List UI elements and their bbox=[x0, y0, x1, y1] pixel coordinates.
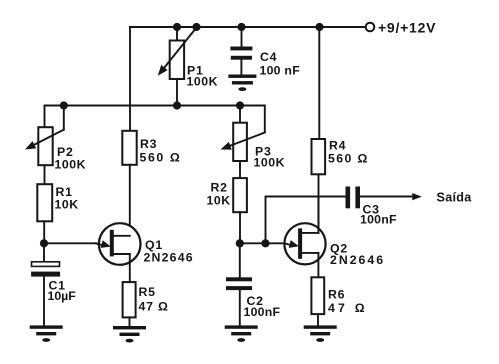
svg-text:10K: 10K bbox=[207, 194, 231, 208]
ground under R5 bbox=[113, 326, 146, 343]
ground under R6 bbox=[304, 325, 337, 342]
svg-text:R6: R6 bbox=[328, 288, 345, 302]
ground under C2 bbox=[225, 325, 258, 342]
wire branch up to C3 bbox=[266, 197, 346, 244]
resistor R4 560 ohm bbox=[312, 27, 369, 233]
resistor R5 47 ohm bbox=[123, 282, 169, 326]
wire emitter Q2 bbox=[240, 242, 290, 244]
svg-text:100K: 100K bbox=[55, 158, 87, 172]
resistor R3 560 ohm bbox=[122, 27, 181, 236]
terminal +9/+12V bbox=[366, 20, 436, 36]
node junction rail1-P1 top bbox=[173, 23, 181, 31]
node junction R2-C2-emitter Q2 bbox=[236, 239, 244, 247]
svg-text:2N2646: 2N2646 bbox=[144, 251, 194, 265]
potentiometer P1 100K bbox=[158, 27, 218, 106]
svg-text:R2: R2 bbox=[211, 181, 228, 195]
node junction rail2-P1 bottom bbox=[173, 101, 181, 109]
capacitor C2 100nF bbox=[226, 243, 281, 325]
ground under C1 bbox=[30, 325, 63, 342]
wire emitter Q1 bbox=[44, 243, 104, 246]
svg-text:C4: C4 bbox=[260, 50, 277, 64]
node junction rail2-P3 top bbox=[236, 101, 244, 109]
svg-text:R4: R4 bbox=[329, 139, 346, 153]
potentiometer P2 100K bbox=[25, 106, 86, 172]
wire secondary rail with P2 top lead and P3 wiper hook bbox=[45, 106, 265, 133]
svg-text:47 Ω: 47 Ω bbox=[139, 300, 169, 314]
node junction rail1-R4 bbox=[315, 23, 323, 31]
svg-text:10K: 10K bbox=[55, 198, 79, 212]
node junction R1-C1-emitter Q1 bbox=[40, 239, 48, 247]
svg-text:2N2646: 2N2646 bbox=[330, 253, 385, 267]
svg-text:100nF: 100nF bbox=[244, 305, 281, 319]
svg-text:Saída: Saída bbox=[437, 191, 473, 205]
svg-text:100K: 100K bbox=[254, 156, 286, 170]
wire positive supply rail top bbox=[130, 26, 366, 28]
potentiometer P3 100K bbox=[221, 106, 286, 170]
capacitor C4 100nF bbox=[230, 27, 300, 78]
output arrow Saida bbox=[412, 191, 472, 205]
svg-text:+9/+12V: +9/+12V bbox=[378, 20, 436, 36]
svg-text:560 Ω: 560 Ω bbox=[328, 152, 369, 166]
svg-text:R5: R5 bbox=[139, 285, 156, 299]
svg-text:R3: R3 bbox=[140, 137, 157, 151]
transistor Q2 2N2646 bbox=[284, 197, 385, 278]
node junction emitter Q2 - C3 branch bbox=[261, 239, 269, 247]
resistor R6 47 ohm bbox=[311, 277, 367, 325]
node junction rail1-C4 bbox=[237, 23, 245, 31]
svg-text:100K: 100K bbox=[187, 75, 219, 89]
svg-text:100nF: 100nF bbox=[360, 213, 397, 227]
svg-text:47 Ω: 47 Ω bbox=[328, 301, 368, 315]
svg-text:100 nF: 100 nF bbox=[260, 64, 301, 78]
svg-text:10µF: 10µF bbox=[48, 289, 77, 303]
capacitor C1 10uF electrolytic bbox=[31, 243, 76, 325]
transistor Q1 2N2646 bbox=[96, 223, 194, 282]
capacitor C3 100nF output bbox=[346, 187, 414, 227]
node junction rail2-P2 wiper bbox=[60, 101, 68, 109]
ground under C4 bbox=[228, 75, 256, 92]
resistor R2 10K bbox=[207, 161, 247, 243]
svg-text:560 Ω: 560 Ω bbox=[140, 151, 182, 165]
node junction rail1-P1 wiper bbox=[192, 23, 200, 31]
resistor R1 10K bbox=[37, 165, 78, 243]
